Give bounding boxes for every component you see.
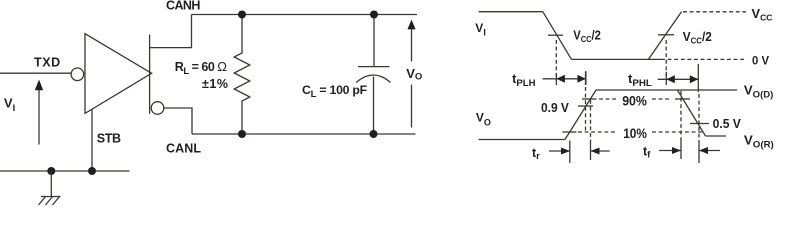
svg-text:±1%: ±1%	[202, 77, 228, 91]
svg-text:RL = 60 Ω: RL = 60 Ω	[175, 59, 227, 77]
wire ground lead	[50, 171, 52, 197]
V_O rising edge	[565, 90, 596, 140]
svg-text:VI: VI	[475, 21, 486, 37]
junction dot capacitor top	[370, 11, 378, 19]
svg-text:tPHL: tPHL	[628, 72, 652, 88]
label V_O waveform	[476, 110, 491, 127]
resistor R_L	[234, 15, 250, 135]
dashed vertical 90% fall crossing	[680, 91, 682, 159]
dashed vertical 0.5V fall crossing	[698, 94, 700, 163]
10% tick on rise	[563, 131, 577, 133]
svg-text:VO: VO	[406, 66, 422, 83]
V_I falling edge	[543, 12, 572, 60]
label STB	[97, 132, 121, 146]
90% level: tick on rise	[582, 98, 597, 100]
junction dot resistor bottom	[238, 130, 246, 138]
svg-text:VO: VO	[476, 110, 491, 127]
junction dot ground	[47, 167, 55, 175]
svg-text:VI: VI	[4, 96, 15, 114]
label V_I waveform	[475, 21, 486, 37]
label CANL	[166, 141, 201, 155]
0.9V tick	[578, 105, 593, 107]
svg-text:CL = 100 pF: CL = 100 pF	[302, 83, 368, 100]
V_I rising edge	[648, 12, 681, 60]
label C_L value	[302, 83, 368, 100]
svg-text:CANH: CANH	[166, 0, 200, 13]
junction dot capacitor bottom	[370, 130, 378, 138]
0V dashed level	[661, 58, 746, 60]
V_I measurement arrow	[35, 80, 43, 145]
label t_f	[643, 145, 651, 161]
junction dot resistor top	[238, 11, 246, 19]
svg-text:tPLH: tPLH	[512, 72, 536, 88]
t_PLH measure arrow	[543, 71, 586, 85]
svg-text:TXD: TXD	[34, 56, 60, 70]
svg-text:0.9 V: 0.9 V	[541, 101, 570, 115]
label VCC	[752, 6, 774, 23]
90% dashed level	[599, 98, 670, 100]
driver CANL bubble	[151, 102, 164, 115]
dashed vertical 90% rise crossing	[590, 100, 592, 160]
VCC dashed level	[683, 11, 746, 13]
wire CANH stub	[150, 15, 192, 48]
svg-text:tr: tr	[532, 146, 540, 162]
wire CANH top rail	[192, 14, 418, 16]
label VCC/2 left	[573, 27, 601, 44]
label V_O(D)	[744, 84, 773, 100]
svg-text:tf: tf	[643, 145, 651, 161]
svg-text:90%: 90%	[622, 94, 647, 110]
junction dot STB	[88, 167, 96, 175]
label 90%	[622, 94, 647, 110]
capacitor C_L	[356, 15, 391, 135]
svg-text:VCC/2: VCC/2	[573, 27, 601, 44]
op-amp U1 driver triangle	[85, 34, 152, 114]
label 0.9 V	[541, 101, 570, 115]
label V_I	[4, 96, 15, 114]
svg-text:STB: STB	[97, 132, 121, 146]
svg-text:0 V: 0 V	[752, 54, 769, 68]
0.5V tick	[690, 123, 709, 125]
label CANH	[166, 0, 200, 13]
svg-text:0.5 V: 0.5 V	[713, 117, 742, 131]
svg-text:VCC: VCC	[752, 6, 774, 23]
dashed vertical 10% rise crossing	[569, 141, 571, 164]
label V_O	[406, 66, 422, 83]
svg-text:10%: 10%	[623, 126, 647, 142]
90% tick on fall	[675, 98, 690, 100]
dashed vertical 0.9V crossing	[585, 71, 587, 131]
label R_L value	[175, 59, 228, 91]
V_O falling edge	[677, 90, 705, 136]
label t_PLH	[512, 72, 536, 88]
label VCC/2 right	[683, 29, 712, 46]
label 0 V	[752, 54, 769, 68]
V_O low level left	[479, 139, 565, 141]
label 10%	[623, 126, 647, 142]
V_I high level	[479, 11, 543, 13]
wire CANL stub	[164, 108, 192, 134]
wire STB	[91, 110, 93, 172]
driver input bubble	[71, 68, 84, 81]
t_r measure arrows	[549, 148, 610, 155]
svg-text:VO(D): VO(D)	[744, 84, 773, 100]
V_O low level right	[706, 135, 727, 137]
V_I rise 50% tick	[658, 34, 674, 36]
t_f measure arrows	[659, 147, 720, 154]
V_I low level	[572, 58, 662, 60]
V_O measurement arrow	[407, 20, 415, 128]
ground	[39, 197, 61, 206]
label t_PHL	[628, 72, 652, 88]
dashed vertical V_I rise 50%	[665, 40, 667, 76]
label TXD	[34, 56, 60, 70]
label t_r	[532, 146, 540, 162]
dashed vertical V_I fall 50%	[555, 40, 557, 76]
svg-text:VCC/2: VCC/2	[683, 29, 712, 46]
label V_O(R)	[744, 134, 774, 150]
wire CANL bottom rail	[192, 133, 416, 135]
driver output bar	[149, 35, 151, 114]
wire TXD input	[0, 72, 71, 74]
10% dashed level	[578, 131, 704, 133]
wire bottom rail	[0, 170, 130, 172]
label 0.5 V	[713, 117, 742, 131]
t_PHL measure arrow	[658, 64, 699, 92]
svg-text:CANL: CANL	[166, 141, 201, 155]
V_O high level	[596, 89, 737, 91]
V_I fall 50% tick	[548, 34, 563, 36]
svg-text:VO(R): VO(R)	[744, 134, 774, 150]
